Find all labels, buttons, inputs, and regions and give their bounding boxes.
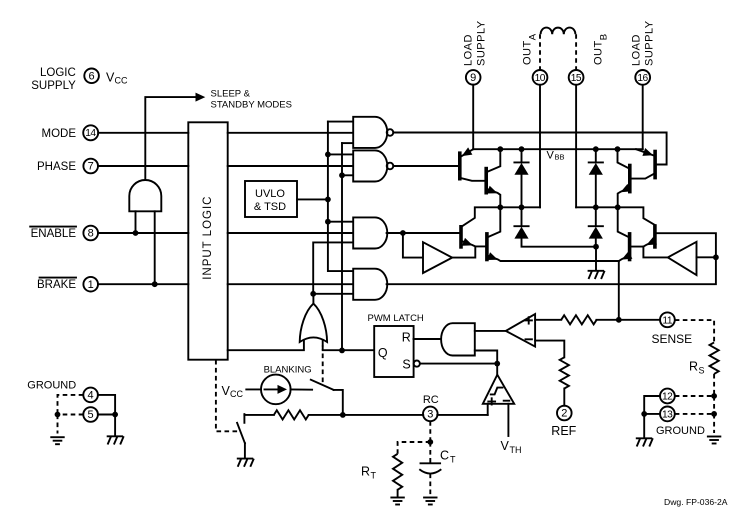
svg-text:Q: Q [378, 346, 388, 360]
svg-text:1: 1 [88, 279, 94, 291]
wire RS dashed down [713, 374, 715, 396]
svg-text:12: 12 [662, 392, 673, 403]
bubble latch S input [414, 361, 420, 367]
wire AND3 output [387, 232, 461, 234]
node pin5 right junction [112, 412, 118, 418]
T1L emitter from rail (arrow into bar) [462, 149, 474, 156]
wire BR output to Q4R base [643, 247, 667, 258]
wire MODE to input logic [98, 132, 188, 134]
wire RT to ground [397, 490, 399, 497]
resistor sense-comp series [561, 315, 596, 324]
wire input logic to OR gate left input [228, 341, 304, 351]
transistor T1R bar [653, 150, 657, 180]
wire bus A to NAND2 input [328, 153, 353, 155]
wire C2 plus input to RC line [487, 404, 489, 415]
wire AND3 to buffer BL [403, 233, 423, 258]
pin 2 [557, 406, 572, 421]
wire NAND2 output to left source base [393, 165, 460, 167]
node pin13 ground junction [641, 411, 647, 417]
label C2 minus [504, 400, 510, 402]
wire AND4 output to right side [387, 257, 716, 284]
pin 13 [660, 407, 675, 422]
label C1 plus [526, 319, 532, 321]
block INPUT LOGIC [188, 122, 227, 359]
block UVLO & TSD [245, 181, 297, 217]
Q4R collector to OUTB [618, 207, 630, 237]
node OUTA D1 [519, 204, 525, 210]
wire pin 12 left to pin 13 [644, 396, 660, 414]
svg-text:4: 4 [88, 390, 94, 402]
svg-text:STANDBY MODES: STANDBY MODES [211, 100, 292, 111]
buffer BR (points left) [668, 242, 697, 275]
svg-text:LOAD: LOAD [631, 34, 643, 66]
pin 4 [83, 388, 98, 403]
transistor Q4L bar [485, 232, 489, 261]
wire U1 input left stub [135, 211, 137, 233]
node RT CT junction [427, 439, 433, 445]
node blanking switch RC junction [340, 412, 346, 418]
wire PHASE to input logic [98, 165, 188, 167]
wire BRAKE line block to AND4 [228, 283, 353, 285]
capacitor CT [421, 462, 441, 464]
wire bus A to AND3 input [328, 221, 353, 223]
node OUTB T2R emitter [615, 204, 621, 210]
wire C2 output to S node [496, 364, 498, 375]
wire OR right input dashed control to blanking switch [322, 346, 324, 383]
transistor T1L bar [458, 151, 462, 180]
resistor REF series [560, 357, 569, 388]
node OR output [310, 291, 316, 297]
T2L collector to rail [486, 149, 500, 172]
svg-text:3: 3 [427, 409, 433, 421]
pin 16 [635, 70, 650, 85]
svg-text:& TSD: & TSD [254, 201, 286, 213]
wire ENABLE line block to AND3 [228, 232, 353, 234]
resistor RS [710, 342, 719, 374]
pin 11 [660, 312, 675, 327]
wire OR output to AND3 input [313, 242, 353, 293]
or gate O1 (points up) [300, 304, 327, 342]
diode D2 [514, 225, 528, 227]
wire ENABLE to input logic [98, 232, 188, 234]
node S line junction [494, 361, 500, 367]
svg-text:6: 6 [89, 71, 95, 83]
wire bus B (PWM latch Q) vertical [342, 142, 353, 144]
wire pin 13 dashed right [675, 413, 714, 415]
switch S1 blanking (open) [311, 380, 334, 390]
pin 7 [83, 159, 98, 174]
wire OUTB node line [576, 207, 655, 225]
wire D2 D4 anodes to ground [522, 239, 597, 247]
svg-text:Dwg. FP-036-2A: Dwg. FP-036-2A [664, 497, 728, 507]
svg-text:TH: TH [510, 445, 522, 455]
svg-text:ENABLE: ENABLE [31, 228, 77, 240]
pin 8 [83, 226, 98, 241]
svg-text:BB: BB [555, 153, 565, 162]
wire NAND1 output to right source base [393, 133, 666, 165]
wire junction to bridge ground [595, 247, 597, 271]
wire dashed pin12 node to pin13 node [713, 396, 715, 414]
svg-text:S: S [699, 366, 705, 376]
svg-text:14: 14 [85, 128, 96, 139]
wire dashed down to ground [57, 415, 59, 434]
svg-text:SENSE: SENSE [652, 332, 693, 346]
arrowhead sleep [196, 93, 206, 102]
wire pin 10 down to OUTA node [539, 85, 541, 208]
and gate A5 (points left) [441, 323, 475, 355]
transistor Q4R bar [628, 232, 632, 261]
Q4L emitter (arrow) to common [487, 255, 619, 261]
wire RC line left end to resistor [244, 414, 274, 416]
svg-text:MODE: MODE [42, 128, 77, 140]
node D2 D4 junction [593, 244, 599, 250]
wire dashed inductor to pin10 [539, 34, 541, 70]
diode D4 [589, 225, 603, 227]
svg-text:8: 8 [88, 228, 94, 240]
svg-text:INPUT LOGIC: INPUT LOGIC [202, 196, 214, 280]
wire pin 9 down to VBB rail [472, 85, 474, 150]
pin 10 [533, 70, 548, 85]
wire C1 plus line [535, 319, 561, 321]
label C2 hysteresis [490, 388, 504, 395]
svg-text:SLEEP &: SLEEP & [211, 89, 251, 100]
wire S2 to ground [244, 443, 246, 457]
node U1-ENABLE junction [133, 230, 139, 236]
svg-text:9: 9 [470, 72, 476, 84]
node rail T2L [497, 146, 503, 152]
wire down to ground [643, 414, 645, 438]
T2L emitter (arrow) to OUTA node [486, 189, 500, 208]
svg-text:5: 5 [88, 409, 94, 421]
wire pin 13 left [644, 413, 660, 415]
Q4R emitter (arrow) to common [619, 255, 630, 261]
node bus A UVLO [325, 197, 331, 203]
svg-text:11: 11 [662, 316, 672, 327]
wire OR output to AND4 input [313, 293, 353, 295]
ground (hatched) pins 12 13 [636, 438, 653, 446]
svg-text:REF: REF [551, 424, 576, 438]
wire latch R input [414, 338, 442, 340]
wire BL output to Q4L base [452, 246, 475, 257]
wire bus B to NAND2 input [342, 174, 353, 176]
svg-text:R: R [689, 360, 698, 374]
svg-text:V: V [547, 150, 555, 162]
Q3R emitter (arrow) to Q4R base [630, 241, 655, 247]
comparator C1 (sense, points left) [506, 314, 535, 347]
T2R collector to rail [618, 149, 630, 169]
ground (flat) below RT [390, 498, 404, 505]
T1L collector to T2L base [460, 178, 486, 181]
pin 14 [83, 125, 98, 140]
wire bus A (UVLO disable) vertical [328, 121, 353, 123]
wire pin 16 down to VBB rail [642, 85, 644, 149]
node sense junction [616, 317, 622, 323]
resistor RT [393, 454, 402, 490]
pin 1 [83, 277, 98, 292]
wire dashed to CT [429, 442, 431, 463]
comparator C2 (blanking one-shot, points up) [483, 375, 514, 404]
wire pin 15 down to OUTB node [575, 85, 577, 208]
wire U1 output up [145, 97, 199, 180]
wire pin 11 dashed to RS [675, 320, 714, 342]
Q3L emitter (arrow) to Q4L base [461, 241, 487, 247]
node OUTA T2L emitter [497, 204, 503, 210]
wire pin4 right solid down [98, 395, 115, 415]
switch S2 sleep (open) with contact tick [243, 414, 245, 423]
ground (flat) below RS [707, 437, 721, 444]
svg-text:LOGIC: LOGIC [40, 67, 76, 79]
wire pin5 dashed left [58, 414, 84, 416]
svg-text:C: C [440, 449, 449, 463]
node bus A AND3 [325, 219, 331, 225]
wire U1 input right stub [154, 211, 156, 284]
svg-text:GROUND: GROUND [27, 379, 76, 391]
node bus B NAND2 [339, 172, 345, 178]
label C2 plus [488, 401, 495, 403]
svg-text:16: 16 [637, 73, 648, 84]
wire pin3 dashed down [429, 421, 431, 442]
wire MODE line block to NAND1 [228, 132, 353, 134]
transistor Q3L bar [459, 225, 463, 249]
wire C1 minus line to REF resistor [535, 341, 564, 358]
resistor blanking R [274, 410, 309, 419]
wire REF resistor to pin 2 [563, 389, 565, 406]
svg-text:13: 13 [662, 409, 673, 420]
wire dashed to RT [398, 442, 431, 454]
node pin5 dashed junction [55, 412, 61, 418]
svg-text:SUPPLY: SUPPLY [644, 20, 656, 66]
pin 6 VCC [84, 69, 99, 84]
wire pin 12 dashed right [675, 395, 714, 397]
node right buffer input [713, 254, 719, 260]
wire pin3 to C2 plus [437, 414, 487, 416]
svg-text:15: 15 [571, 73, 582, 84]
block PWM latch [374, 326, 413, 377]
node bus B latch Q [339, 348, 345, 354]
wire VBB rail [473, 148, 643, 150]
wire CT dashed to ground [429, 474, 431, 498]
buffer BL (points right) [423, 242, 452, 273]
wire current source to switch contact [291, 388, 313, 390]
wire sense node to pin 11 [619, 319, 660, 321]
wire VCC to current source [246, 388, 261, 390]
diode D3 [595, 149, 597, 162]
svg-text:S: S [402, 357, 410, 371]
node OUTB D3 [593, 204, 599, 210]
wire OR right input stub [322, 341, 324, 346]
svg-text:LOAD: LOAD [463, 34, 475, 66]
node RS pin12 [711, 393, 717, 399]
svg-text:BRAKE: BRAKE [37, 279, 76, 291]
wire resistor to sense node [596, 319, 618, 321]
Q4L collector to OUTA [487, 207, 500, 237]
svg-text:CC: CC [115, 76, 128, 86]
node rail D3 [593, 146, 599, 152]
wire resistor to pin3 [309, 414, 424, 416]
svg-text:SUPPLY: SUPPLY [476, 20, 488, 66]
nand gate N2 [353, 150, 387, 181]
wire A5 top input to comparator output [475, 330, 506, 332]
wire Q3R base over buffer [655, 233, 716, 257]
node AND3 output split [400, 230, 406, 236]
svg-text:UVLO: UVLO [255, 188, 285, 200]
node rail D1 [519, 146, 525, 152]
svg-text:T: T [450, 455, 456, 465]
svg-text:PWM LATCH: PWM LATCH [368, 313, 424, 324]
svg-text:SUPPLY: SUPPLY [31, 80, 76, 92]
wire A5 bottom input to S line [475, 351, 497, 364]
T2R emitter (arrow) to OUTB node [618, 188, 630, 208]
node bus A NAND2 [325, 152, 331, 158]
and gate A3 [353, 217, 387, 248]
ground (hatched) bridge [588, 271, 605, 279]
ground (flat) logic [50, 437, 64, 444]
wire OR output up [312, 294, 314, 304]
transistor T2R bar [628, 164, 632, 194]
ground (flat) below CT [423, 498, 437, 505]
ground (hatched) power [107, 436, 124, 444]
svg-text:PHASE: PHASE [37, 161, 76, 173]
wire BR input [697, 256, 716, 258]
wire PHASE line block to NAND2 [228, 165, 353, 167]
wire dashed inductor to pin15 [575, 34, 577, 70]
and gate U1 (enable/brake, points up) [129, 180, 161, 211]
wire common emitter down to sense [618, 261, 620, 320]
svg-text:2: 2 [561, 408, 567, 420]
inductor motor winding [541, 28, 576, 35]
wire pin5 right solid [98, 414, 115, 416]
T1R emitter from rail (arrow into bar) [636, 149, 653, 155]
pin 3 [423, 407, 438, 422]
pin 9 [466, 70, 481, 85]
pin 12 [660, 389, 675, 404]
wire down to hatched ground [114, 415, 116, 436]
svg-text:V: V [501, 439, 510, 453]
nand gate N1 [353, 117, 387, 148]
svg-text:R: R [402, 331, 411, 345]
pin 15 [569, 70, 584, 85]
node rail T2R [615, 146, 621, 152]
T1R collector to T2R base [630, 173, 655, 178]
wire latch S line [420, 363, 497, 365]
svg-text:CC: CC [230, 389, 243, 399]
svg-text:10: 10 [535, 73, 546, 84]
svg-text:7: 7 [88, 161, 94, 173]
ground (hatched) below S2 [237, 459, 254, 467]
svg-text:RC: RC [423, 394, 439, 406]
svg-text:GROUND: GROUND [656, 425, 705, 437]
wire latch Q line [323, 349, 374, 351]
wire BRAKE to input logic [98, 283, 188, 285]
wire input logic sleep dashed control [216, 360, 238, 431]
wire dashed down to ground [713, 414, 715, 433]
wire C2 minus input to VTH [507, 404, 509, 436]
pin 5 [83, 407, 98, 422]
svg-text:R: R [361, 465, 370, 479]
node RS pin13 [711, 411, 717, 417]
wire OUTA node line [462, 207, 540, 226]
transistor Q3R bar [653, 224, 657, 249]
wire UVLO output [297, 198, 328, 200]
label C1 minus [526, 338, 532, 340]
node U1-BRAKE junction [152, 281, 158, 287]
svg-text:T: T [371, 471, 377, 481]
current source I1 blanking [261, 375, 291, 405]
wire pin4 dashed left down [58, 395, 84, 415]
transistor T2L bar [484, 167, 488, 195]
and gate A4 [353, 269, 387, 300]
diode D1 [521, 149, 523, 162]
svg-text:BLANKING: BLANKING [264, 364, 312, 375]
